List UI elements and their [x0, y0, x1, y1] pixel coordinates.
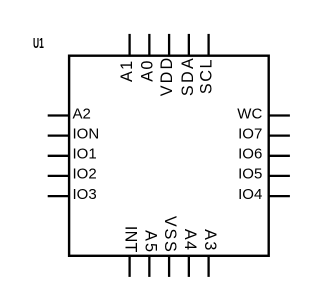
pin SDA (top): [179, 34, 197, 96]
svg-text:IO4: IO4: [238, 186, 262, 203]
svg-text:A2: A2: [73, 105, 91, 122]
IC U1 body: [69, 56, 269, 256]
pin A0 (top): [138, 34, 156, 82]
svg-text:IO1: IO1: [73, 146, 97, 163]
svg-text:U1: U1: [33, 35, 44, 52]
svg-text:A5: A5: [141, 230, 159, 254]
pin IO3 (left): [48, 186, 97, 203]
svg-text:WC: WC: [237, 105, 262, 122]
pin IO1 (left): [48, 146, 97, 163]
pin IO5 (right): [238, 166, 290, 183]
svg-text:A4: A4: [181, 229, 199, 251]
svg-text:VDD: VDD: [158, 56, 176, 97]
pin A5 (bottom): [141, 230, 159, 277]
svg-text:ION: ION: [73, 125, 100, 142]
pin VSS (bottom): [161, 216, 179, 277]
pin A2 (left): [48, 105, 91, 122]
pin IO6 (right): [238, 146, 290, 163]
svg-text:IO5: IO5: [238, 166, 262, 183]
pin INT (bottom): [122, 226, 140, 277]
svg-text:A3: A3: [201, 229, 219, 252]
pin VDD (top): [158, 34, 176, 96]
pin SCL (top): [198, 34, 216, 94]
pin IO2 (left): [48, 166, 97, 183]
pin A1 (top): [118, 34, 136, 82]
pin IO7 (right): [238, 125, 290, 142]
svg-text:IO7: IO7: [238, 125, 262, 142]
svg-text:IO2: IO2: [73, 166, 97, 183]
svg-text:IO6: IO6: [238, 146, 262, 163]
pin IO4 (right): [238, 186, 290, 203]
svg-text:VSS: VSS: [161, 216, 179, 254]
pin A3 (bottom): [201, 229, 219, 277]
pin A4 (bottom): [181, 229, 199, 277]
svg-text:A1: A1: [118, 60, 136, 82]
pin ION (left): [48, 125, 99, 142]
svg-text:A0: A0: [138, 59, 156, 81]
svg-text:IO3: IO3: [73, 186, 97, 203]
pin WC (right): [237, 105, 290, 122]
svg-text:INT: INT: [122, 226, 140, 253]
svg-text:SCL: SCL: [198, 58, 216, 94]
svg-text:SDA: SDA: [179, 56, 197, 96]
